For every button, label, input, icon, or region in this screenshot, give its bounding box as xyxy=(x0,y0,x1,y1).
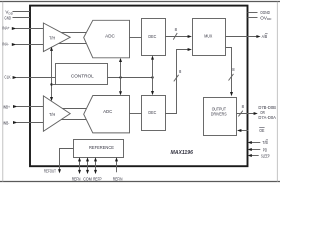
svg-text:OE: OE xyxy=(259,128,264,133)
svg-text:REFERENCE: REFERENCE xyxy=(89,145,114,150)
svg-text:REFIN: REFIN xyxy=(113,176,123,181)
svg-text:REFN: REFN xyxy=(72,176,81,181)
svg-text:D7A-D0A: D7A-D0A xyxy=(258,115,276,120)
svg-text:ADC: ADC xyxy=(103,109,112,114)
svg-text:MUX: MUX xyxy=(204,34,212,39)
svg-text:T/B: T/B xyxy=(262,140,267,145)
svg-text:SLEEP: SLEEP xyxy=(261,154,270,159)
svg-text:INB+: INB+ xyxy=(3,104,10,109)
svg-text:COM: COM xyxy=(83,176,92,181)
svg-text:OGND: OGND xyxy=(260,10,270,15)
svg-text:REFP: REFP xyxy=(93,176,102,181)
svg-text:ADC: ADC xyxy=(105,33,115,38)
svg-text:INB-: INB- xyxy=(3,120,10,125)
svg-text:CONTROL: CONTROL xyxy=(71,73,94,78)
svg-text:GND: GND xyxy=(4,15,11,20)
svg-text:INA-: INA- xyxy=(2,42,9,47)
svg-text:INA+: INA+ xyxy=(2,26,10,31)
svg-text:T/H: T/H xyxy=(49,36,55,41)
svg-text:DEC: DEC xyxy=(148,110,156,115)
svg-text:PD: PD xyxy=(263,148,268,153)
svg-text:OVDD: OVDD xyxy=(260,15,272,21)
svg-text:REFOUT: REFOUT xyxy=(44,168,56,173)
svg-text:A/B: A/B xyxy=(262,34,268,39)
svg-text:DEC: DEC xyxy=(148,34,156,39)
svg-text:MAX1196: MAX1196 xyxy=(171,150,194,156)
svg-text:DRIVERS: DRIVERS xyxy=(211,111,227,116)
svg-text:CLK: CLK xyxy=(4,75,11,80)
svg-text:T/H: T/H xyxy=(49,112,55,117)
